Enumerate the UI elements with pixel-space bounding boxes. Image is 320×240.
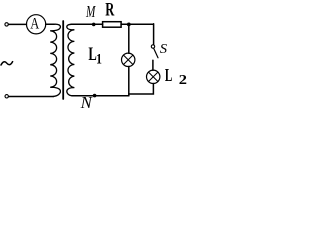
wire resistor to top-right corner [121, 23, 153, 25]
wire branch L1 vertical top [128, 24, 130, 53]
svg-text:1: 1 [96, 50, 102, 67]
svg-text:R: R [105, 0, 114, 20]
wire lamp L2 bottom return [129, 84, 154, 95]
lamp L1 [122, 53, 135, 66]
wire corner down to switch [153, 24, 155, 45]
bottom wire secondary (coil to L1 branch) [72, 95, 129, 97]
svg-text:S: S [160, 41, 167, 56]
ammeter A [26, 15, 45, 34]
wire switch to lamp L2 [152, 60, 154, 70]
svg-text:A: A [30, 15, 40, 33]
lamp L2 [147, 70, 160, 83]
svg-text:M: M [85, 3, 96, 22]
svg-text:L: L [165, 66, 172, 85]
wire lamp L1 down to bottom wire [128, 67, 130, 96]
switch S blade [154, 48, 158, 57]
terminal (bottom-left input) [5, 95, 8, 98]
junction node after R [127, 23, 131, 27]
terminal (top-left input) [5, 23, 8, 26]
transformer secondary coil [67, 24, 75, 96]
svg-text:2: 2 [179, 73, 187, 87]
switch S contact circle [151, 45, 154, 48]
svg-text:N: N [80, 93, 93, 109]
node N dot [93, 94, 97, 98]
wire ammeter to primary coil [46, 23, 54, 25]
AC source tilde [1, 62, 13, 65]
bottom wire primary (coil to terminal) [9, 96, 54, 98]
wire terminal to ammeter [9, 23, 27, 25]
transformer primary coil [50, 24, 60, 96]
node M dot [92, 23, 96, 27]
resistor R body [103, 22, 122, 28]
wire secondary top to resistor [71, 23, 103, 25]
transformer core [62, 21, 64, 99]
